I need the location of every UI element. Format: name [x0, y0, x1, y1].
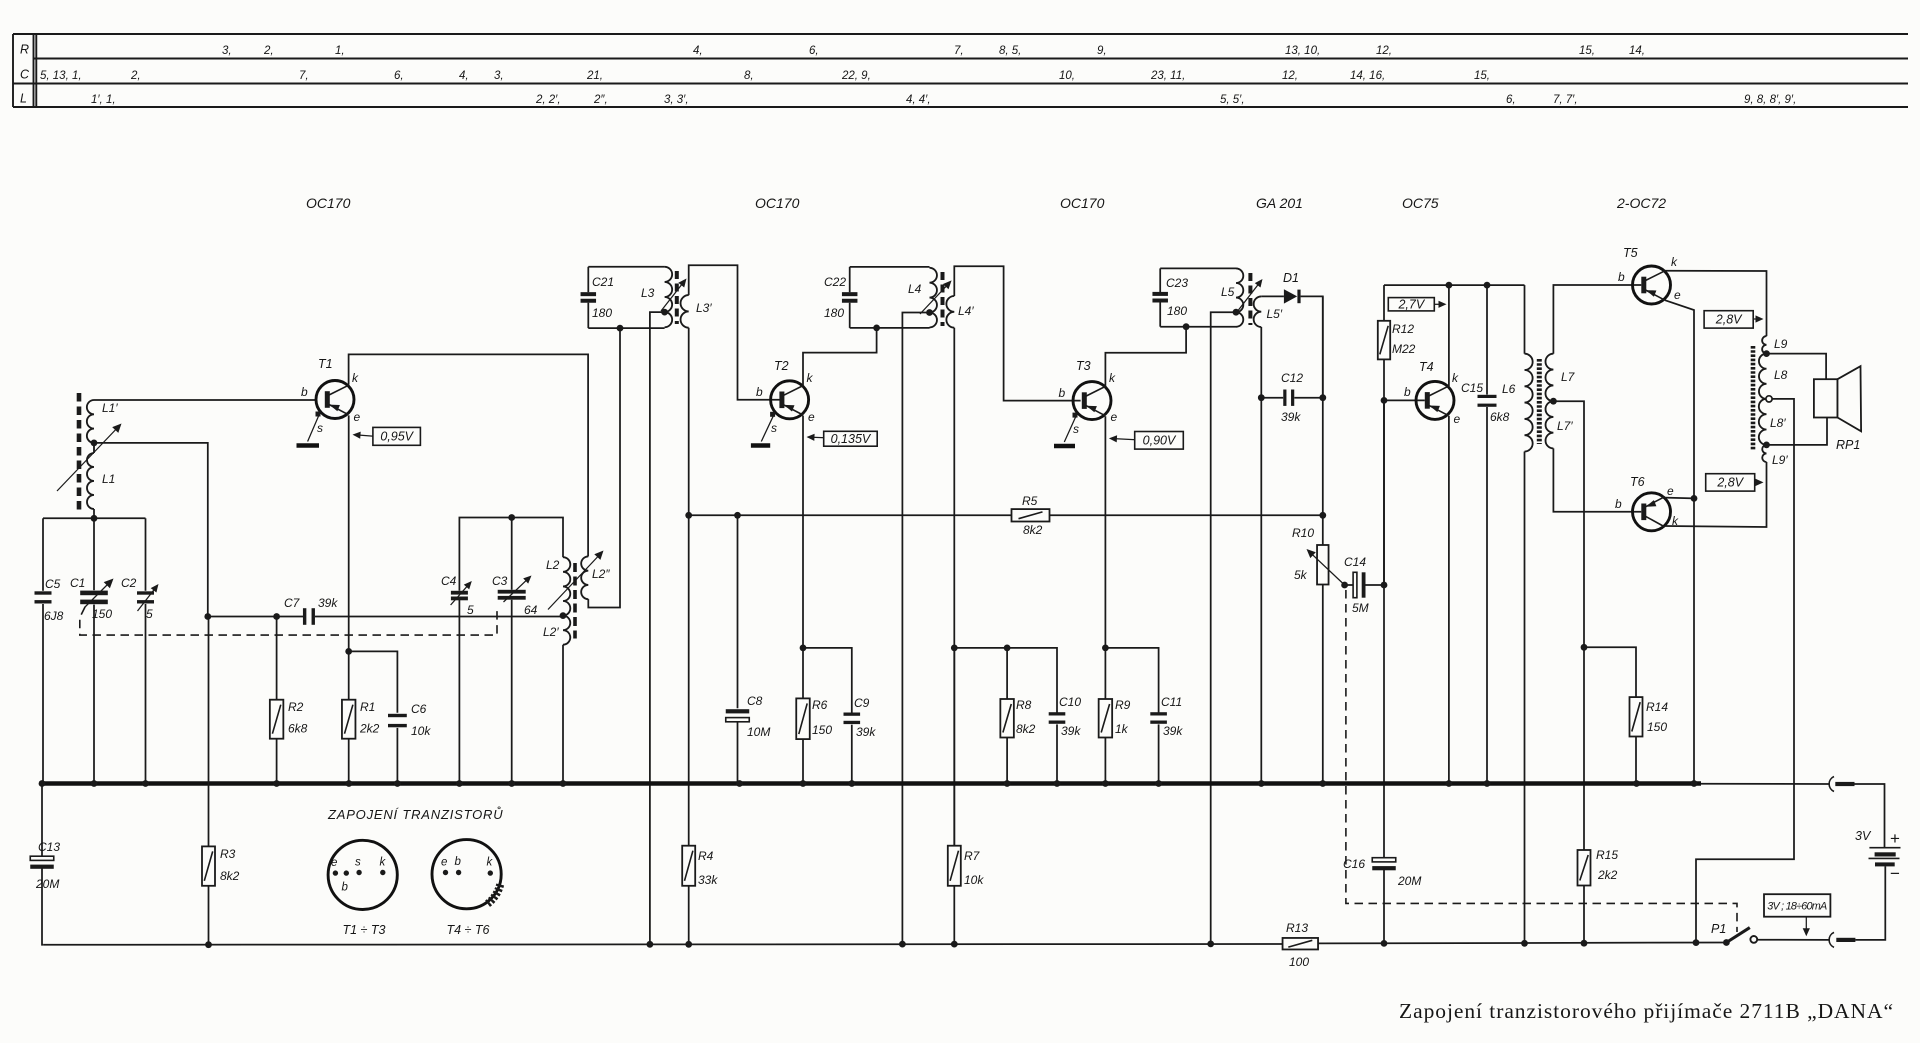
svg-text:13, 10,: 13, 10,	[1285, 45, 1320, 57]
svg-text:1,: 1,	[335, 45, 345, 57]
wire C7 to L2 junction	[315, 616, 563, 618]
component table frame	[13, 34, 1908, 107]
wire tap to R3/C7 column	[94, 443, 208, 617]
svg-text:C4: C4	[441, 574, 457, 588]
svg-text:L2′: L2′	[543, 625, 559, 639]
svg-text:2-OC72: 2-OC72	[1616, 195, 1666, 211]
svg-text:R15: R15	[1596, 848, 1618, 862]
battery rating box 3V; 18-60mA	[1764, 894, 1830, 917]
node tap column at C7 line	[204, 613, 211, 620]
wire L4 tap to bottom rail	[902, 313, 929, 945]
svg-text:ZAPOJENÍ TRANZISTORŮ: ZAPOJENÍ TRANZISTORŮ	[327, 806, 503, 822]
transistor T1	[301, 357, 361, 442]
coil L7 (driver secondary upper)	[1545, 354, 1575, 402]
wire detector column	[1322, 296, 1324, 545]
capacitor C14 (electrolytic)	[1344, 555, 1384, 615]
svg-text:L3: L3	[641, 286, 655, 300]
arrow of C2	[138, 584, 159, 611]
svg-text:+: +	[1890, 829, 1900, 848]
wire L7 tap to R14/R15 node	[1553, 401, 1584, 647]
positive bus rail	[40, 781, 1701, 786]
svg-text:5: 5	[146, 607, 153, 621]
svg-text:C15: C15	[1461, 381, 1483, 395]
svg-text:OC75: OC75	[1402, 195, 1439, 211]
wire T5 emitter down	[1665, 300, 1694, 783]
tuning arrow through antenna coil	[57, 424, 122, 492]
resistor R15	[1578, 647, 1619, 943]
svg-text:150: 150	[812, 723, 832, 737]
type label OC170 (T2)	[755, 195, 800, 211]
svg-text:b: b	[1404, 385, 1411, 399]
svg-text:7,: 7,	[954, 45, 964, 57]
svg-text:39k: 39k	[1281, 410, 1301, 424]
type label OC170 (T1)	[306, 195, 351, 211]
svg-text:R6: R6	[812, 698, 828, 712]
svg-text:s: s	[317, 421, 323, 435]
coil L5 (IF tank)	[1221, 268, 1243, 326]
svg-text:C5: C5	[45, 577, 61, 591]
coil L6 (driver primary)	[1502, 354, 1533, 944]
svg-text:R9: R9	[1115, 698, 1131, 712]
type label OC170 (T3)	[1060, 195, 1105, 211]
node L3 tap	[661, 309, 668, 316]
svg-text:2k2: 2k2	[1597, 868, 1618, 882]
resistor R9	[1099, 648, 1131, 784]
svg-text:9, 8, 8′, 9′,: 9, 8, 8′, 9′,	[1744, 94, 1796, 106]
svg-text:8k2: 8k2	[220, 869, 240, 883]
svg-text:b: b	[1618, 270, 1625, 284]
node R14/R15 junction	[1581, 644, 1588, 651]
wire D1 cathode to detector column	[1301, 296, 1323, 397]
svg-text:C21: C21	[592, 275, 614, 289]
svg-text:P1: P1	[1711, 922, 1726, 936]
node L3' bottom / AGC line start	[685, 512, 692, 519]
bottom rail dots	[205, 939, 1730, 948]
core of L3/L3' transformer	[675, 271, 679, 324]
node C15 top	[1484, 282, 1491, 289]
wire L5' top to diode	[1261, 295, 1284, 297]
svg-text:9,: 9,	[1097, 45, 1107, 57]
svg-text:0,135V: 0,135V	[831, 432, 872, 446]
wire L8'/L9' tap to speaker bottom	[1767, 418, 1828, 445]
capacitor C15	[1461, 285, 1510, 783]
battery connector clip upper	[1829, 777, 1854, 792]
svg-text:5, 13, 1,: 5, 13, 1,	[40, 70, 82, 82]
svg-text:6,: 6,	[1506, 94, 1516, 106]
wire C23/L5 box top	[1160, 267, 1236, 269]
wiper arrow of R10	[1307, 549, 1345, 585]
wire C22/L4 box bottom	[850, 327, 930, 329]
transistor T5	[1618, 246, 1681, 304]
svg-text:8k2: 8k2	[1023, 523, 1043, 537]
capacitor C10	[1049, 695, 1082, 784]
potentiometer R10	[1292, 526, 1329, 784]
node L4' bottom / R8 / C10	[951, 645, 958, 652]
svg-text:R13: R13	[1286, 921, 1308, 935]
capacitor C3 (padder)	[492, 518, 538, 784]
voltage box 2,8V upper with arrow	[1704, 311, 1763, 328]
svg-text:R10: R10	[1292, 526, 1314, 540]
svg-text:e: e	[1111, 410, 1118, 424]
svg-text:39k: 39k	[1061, 724, 1081, 738]
svg-text:C3: C3	[492, 574, 508, 588]
resistor R7	[948, 648, 985, 944]
capacitor C1 (tuning gang)	[70, 518, 112, 783]
wire C22/L4 box top	[850, 266, 930, 268]
resistor R4	[682, 846, 718, 945]
node tap of L1/L1'	[91, 440, 98, 447]
resistor R2	[270, 617, 308, 784]
node L2/L2' junction	[560, 612, 567, 619]
wire L3' top to T2 base	[689, 265, 780, 400]
wire L5' bottom to C12 left node	[1260, 327, 1262, 398]
svg-text:2, 2′,: 2, 2′,	[535, 94, 561, 106]
svg-text:−: −	[1890, 864, 1900, 883]
capacitor C23	[1152, 268, 1188, 326]
voltage box 0,135V with arrow at T2 emitter	[807, 431, 878, 446]
svg-text:RP1: RP1	[1836, 438, 1860, 452]
battery B1 3V	[1855, 829, 1901, 883]
node L8'/L9' tap	[1763, 442, 1770, 449]
coil L1 (antenna winding lower)	[87, 443, 115, 509]
coil L3 (osc primary)	[641, 267, 672, 327]
svg-text:T4: T4	[1419, 360, 1434, 374]
voltage box 2,8V lower with arrow	[1706, 474, 1764, 491]
svg-text:OC170: OC170	[1060, 195, 1105, 211]
svg-text:R8: R8	[1016, 698, 1032, 712]
tap L8/L8' center (open)	[1766, 396, 1772, 402]
resistor R5	[1012, 494, 1050, 537]
ferrite rod of antenna coil	[77, 393, 82, 511]
svg-text:L9: L9	[1774, 337, 1788, 351]
type label OC75 (T4)	[1402, 195, 1439, 211]
coil L9 (feedback winding upper)	[1762, 336, 1788, 354]
coil L3' (osc secondary)	[681, 295, 713, 328]
wire battery negative to clip	[1855, 866, 1885, 940]
arrow from rating box to wire	[1803, 917, 1810, 937]
resistor R6	[796, 648, 832, 784]
table row label L	[20, 92, 27, 106]
svg-text:10,: 10,	[1059, 70, 1075, 82]
wire L3 tap to bottom rail	[650, 312, 665, 944]
svg-text:L5′: L5′	[1267, 307, 1283, 321]
svg-text:1k: 1k	[1115, 722, 1129, 736]
transistor T6 (mirrored)	[1615, 475, 1679, 531]
pinout circle T4-T6	[432, 840, 501, 937]
adjustment arrow of L4	[920, 280, 952, 314]
node box bottom / T3 collector	[1183, 323, 1190, 330]
svg-text:39k: 39k	[856, 725, 876, 739]
caption text	[1399, 999, 1893, 1023]
svg-text:12,: 12,	[1376, 45, 1392, 57]
node T1 emitter / R1 / C6	[345, 648, 352, 655]
svg-text:C1: C1	[70, 576, 85, 590]
table row R numbers	[222, 45, 1645, 57]
svg-text:4, 4′,: 4, 4′,	[906, 94, 931, 106]
capacitor C6	[388, 702, 431, 784]
node T4 collector top	[1446, 282, 1453, 289]
bottom rail left of R13	[44, 943, 1283, 946]
svg-text:R1: R1	[360, 700, 375, 714]
svg-text:C16: C16	[1343, 857, 1365, 871]
wire C5-C1-C2 top rail	[43, 517, 146, 519]
svg-text:C8: C8	[747, 694, 763, 708]
svg-text:T2: T2	[774, 359, 789, 373]
node L9/L8 tap	[1763, 350, 1770, 357]
svg-text:6J8: 6J8	[44, 609, 64, 623]
resistor R14	[1630, 697, 1669, 783]
wire T4 collector to supply wire	[1448, 285, 1450, 386]
resistor R13	[1283, 921, 1319, 969]
svg-text:12,: 12,	[1282, 70, 1298, 82]
svg-text:2,: 2,	[130, 70, 141, 82]
bus junction dots	[39, 780, 1698, 787]
svg-text:e: e	[354, 410, 361, 424]
diode D1	[1283, 271, 1301, 304]
pinout circle T1-T3	[328, 840, 397, 937]
battery connector clip lower	[1829, 932, 1855, 947]
transistor T2	[756, 359, 815, 442]
svg-text:150: 150	[92, 607, 112, 621]
dashed coupling R10 to switch P1	[1346, 590, 1737, 932]
wire L4' top to T3 base	[954, 266, 1080, 400]
adjustment arrow of L5	[1238, 279, 1263, 311]
svg-text:L2″: L2″	[592, 567, 610, 581]
svg-text:T3: T3	[1076, 359, 1091, 373]
wire R1 node to C6	[349, 651, 398, 712]
coil L7' (driver secondary lower)	[1546, 401, 1574, 448]
svg-text:k: k	[380, 857, 387, 869]
svg-text:R: R	[20, 43, 29, 57]
svg-text:T1 ÷ T3: T1 ÷ T3	[343, 923, 386, 937]
AGC wire to R5	[689, 514, 1012, 516]
coil L4' (IF secondary)	[946, 296, 974, 328]
svg-text:e: e	[331, 857, 337, 869]
svg-text:C12: C12	[1281, 371, 1303, 385]
node T2 emitter / R6 / C9	[800, 645, 807, 652]
svg-text:b: b	[301, 385, 308, 399]
svg-text:C23: C23	[1166, 276, 1188, 290]
svg-text:64: 64	[524, 603, 538, 617]
wire L4' bottom to R8/C10 node	[953, 328, 955, 846]
wire T4 base	[1384, 399, 1425, 401]
coil L5' (detector secondary)	[1254, 296, 1283, 327]
svg-text:T6: T6	[1630, 475, 1645, 489]
wire L9/L8 tap to speaker top	[1767, 354, 1827, 380]
node detector column / C12 right	[1319, 394, 1326, 401]
svg-text:L6: L6	[1502, 382, 1516, 396]
wire T1 emitter down to R1 node	[348, 415, 350, 651]
capacitor C22	[824, 267, 857, 328]
svg-text:s: s	[1073, 422, 1079, 436]
type label GA201 (D1)	[1256, 195, 1303, 211]
svg-text:C: C	[20, 68, 30, 82]
wire C21/L3 box bottom	[588, 327, 664, 329]
wire C4-C3-L2 top rail	[459, 518, 563, 591]
AGC wire R5 to detector node	[1050, 514, 1323, 516]
svg-text:L7: L7	[1561, 370, 1576, 384]
svg-text:R14: R14	[1646, 700, 1668, 714]
svg-text:L8: L8	[1774, 368, 1788, 382]
svg-text:T4 ÷ T6: T4 ÷ T6	[447, 923, 490, 937]
svg-text:b: b	[1615, 497, 1622, 511]
transistor T3	[1059, 359, 1118, 442]
wire T6 emitter to junction	[1665, 497, 1694, 500]
svg-text:0,95V: 0,95V	[380, 430, 414, 444]
svg-text:L5: L5	[1221, 285, 1235, 299]
node T5/T6 emitter junction	[1691, 495, 1698, 502]
table row label R	[20, 43, 29, 57]
capacitor C7	[284, 596, 338, 625]
svg-text:e: e	[1674, 288, 1681, 302]
svg-text:4,: 4,	[459, 70, 469, 82]
coil L8 (output winding upper)	[1759, 354, 1788, 399]
wire center tap to negative rail	[1696, 399, 1794, 943]
node L7 center tap	[1550, 398, 1557, 405]
wire box bottom down to L2'' bottom	[588, 328, 620, 607]
coil L8' (output winding lower)	[1759, 399, 1787, 445]
wire L5' column to bus	[1260, 398, 1262, 784]
svg-text:8,: 8,	[744, 70, 754, 82]
svg-text:e: e	[441, 857, 447, 869]
svg-text:2,7V: 2,7V	[1397, 298, 1425, 312]
svg-text:C11: C11	[1161, 695, 1182, 709]
capacitor C11	[1150, 695, 1183, 784]
svg-text:14, 16,: 14, 16,	[1350, 70, 1385, 82]
svg-text:15,: 15,	[1474, 70, 1490, 82]
svg-text:3,: 3,	[494, 70, 504, 82]
capacitor C12	[1261, 371, 1323, 424]
svg-text:3V: 3V	[1855, 829, 1872, 843]
svg-text:33k: 33k	[698, 873, 718, 887]
svg-text:s: s	[771, 421, 777, 435]
ground at T3 shield	[1054, 444, 1075, 449]
svg-text:6k8: 6k8	[288, 722, 308, 736]
svg-text:7, 7′,: 7, 7′,	[1553, 94, 1578, 106]
svg-text:b: b	[455, 856, 462, 868]
voltage box 0,95V with arrow at T1 emitter	[353, 427, 421, 445]
ground at T1 shield	[297, 443, 320, 448]
core of output transformer	[1751, 346, 1756, 450]
node L4 tap	[926, 309, 933, 316]
core of L6/L7 transformer	[1537, 359, 1542, 444]
wire L3' bottom to AGC line and R4	[688, 328, 690, 846]
wire T4 base column to C16	[1383, 400, 1385, 858]
svg-text:OC170: OC170	[306, 195, 351, 211]
svg-text:C7: C7	[284, 596, 301, 610]
svg-text:b: b	[756, 385, 763, 399]
svg-text:C14: C14	[1344, 555, 1366, 569]
capacitor C13 (electrolytic)	[30, 784, 60, 945]
wire L1' top to T1 base	[94, 399, 316, 401]
wire R9 node to C11	[1105, 648, 1158, 713]
svg-text:6k8: 6k8	[1490, 410, 1510, 424]
speaker RP1	[1814, 366, 1861, 452]
svg-text:20M: 20M	[1397, 874, 1421, 888]
wire junction to R14	[1584, 647, 1636, 697]
svg-text:L4: L4	[908, 282, 922, 296]
svg-text:R4: R4	[698, 849, 714, 863]
wire T3 collector to C23/L5 box	[1105, 327, 1186, 386]
svg-text:1′, 1,: 1′, 1,	[91, 94, 116, 106]
wire C23/L5 box bottom	[1160, 326, 1236, 328]
svg-text:5M: 5M	[1352, 601, 1369, 615]
node box bottom to L2'' link	[617, 325, 624, 332]
wire T4 emitter to bus	[1448, 416, 1450, 784]
node R10 wiper / C14	[1341, 582, 1348, 589]
voltage box 2,7V with arrow at T4 collector	[1388, 298, 1446, 312]
svg-text:8k2: 8k2	[1016, 722, 1036, 736]
svg-text:D1: D1	[1283, 271, 1299, 285]
node R8 top	[1004, 645, 1011, 652]
wire T5 collector to L9 top	[1665, 271, 1767, 336]
svg-text:R3: R3	[220, 847, 236, 861]
wire C14 to T4 base column	[1383, 400, 1385, 585]
svg-text:C6: C6	[411, 702, 427, 716]
svg-text:39k: 39k	[318, 596, 338, 610]
svg-text:L4′: L4′	[958, 304, 974, 318]
heading ZAPOJENI TRANZISTORU	[327, 806, 503, 822]
svg-text:20M: 20M	[35, 877, 59, 891]
arrow of C3	[504, 576, 532, 603]
svg-text:22, 9,: 22, 9,	[841, 70, 871, 82]
arrow of C1	[85, 579, 114, 608]
ground at T2 shield	[751, 443, 770, 448]
svg-text:180: 180	[824, 306, 844, 320]
svg-text:k: k	[1452, 371, 1459, 385]
svg-text:2,: 2,	[263, 45, 274, 57]
wire L7' bottom to T6 base	[1553, 448, 1641, 511]
capacitor C4 (trimmer)	[441, 574, 474, 784]
switch P1	[1711, 922, 1757, 943]
svg-text:23, 11,: 23, 11,	[1150, 70, 1185, 82]
node detector / AGC / volume	[1319, 512, 1326, 519]
node C3 top	[508, 514, 515, 521]
table row label C	[20, 68, 30, 82]
coil L2' (osc tank lower)	[543, 616, 570, 784]
wire R6 node to C9	[803, 648, 852, 713]
svg-text:10k: 10k	[411, 724, 431, 738]
svg-text:2k2: 2k2	[359, 722, 380, 736]
svg-text:T1: T1	[318, 357, 333, 371]
core of L5/L5' transformer	[1248, 273, 1252, 325]
svg-text:R7: R7	[964, 849, 981, 863]
svg-text:5: 5	[467, 603, 474, 617]
node C14/T4 base column	[1381, 582, 1388, 589]
svg-text:Zapojení tranzistorového přijí: Zapojení tranzistorového přijímače 2711B…	[1399, 999, 1893, 1023]
svg-text:T5: T5	[1623, 246, 1638, 260]
svg-text:6,: 6,	[394, 70, 404, 82]
svg-text:OC170: OC170	[755, 195, 800, 211]
capacitor C2 (trimmer)	[121, 518, 154, 783]
coil L2'' (feedback winding)	[581, 556, 610, 599]
wire bus to battery positive	[1701, 784, 1885, 848]
node box bottom / T2 collector	[873, 325, 880, 332]
svg-text:0,90V: 0,90V	[1143, 434, 1177, 448]
svg-text:2,8V: 2,8V	[1715, 313, 1743, 327]
coil L2 (osc tank upper)	[546, 557, 570, 615]
svg-text:2″,: 2″,	[593, 94, 608, 106]
svg-text:C10: C10	[1059, 695, 1081, 709]
svg-text:C13: C13	[38, 840, 60, 854]
svg-text:k: k	[807, 371, 814, 385]
svg-text:b: b	[342, 882, 349, 894]
type label 2-OC72 (T5, T6)	[1616, 195, 1666, 211]
svg-text:L1: L1	[102, 472, 115, 486]
svg-text:5k: 5k	[1294, 568, 1308, 582]
svg-text:180: 180	[1167, 304, 1187, 318]
node T3 emitter / R9 / C11	[1102, 645, 1109, 652]
